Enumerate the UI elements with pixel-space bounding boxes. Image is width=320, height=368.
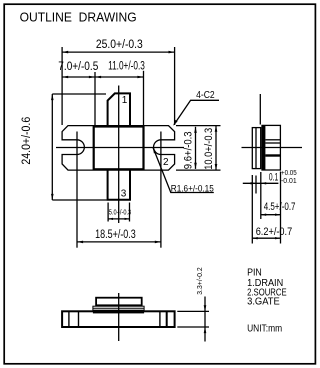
- bar inner vertical left 1: [68, 311, 70, 327]
- dimension 4.5+/-0.7: [261, 172, 281, 244]
- svg-text:+0.05: +0.05: [281, 170, 297, 177]
- svg-text:3: 3: [121, 188, 127, 199]
- cap: [96, 298, 142, 306]
- side view thick inner band: [265, 154, 280, 156]
- R1.6+/-0.15 slot radius callout: [153, 147, 214, 192]
- cap band divider: [93, 307, 144, 309]
- dimension 25.0+/-0.3: [62, 47, 175, 125]
- flange outline with slots and chamfers: [62, 126, 175, 171]
- dimension 0.1 +0.05/-0.01: [243, 172, 279, 219]
- left slot center line: [76, 132, 78, 248]
- svg-text:4-C2: 4-C2: [196, 89, 215, 101]
- svg-text:3.GATE: 3.GATE: [247, 297, 280, 308]
- dimension 3.3+/-0.2: [177, 297, 209, 342]
- dimension 10.0+/-0.3 (right, rotated): [215, 126, 217, 171]
- dimension 18.5+/-0.3 (bottom): [77, 241, 161, 243]
- svg-text:5.0+/-0.3: 5.0+/-0.3: [109, 209, 131, 216]
- side view inner line 1: [265, 139, 280, 141]
- dimension 7.0+/-0.5 and 11.0+/-0.3: [62, 71, 143, 126]
- ceramic body: [94, 127, 144, 170]
- dimension 6.2+/-0.7: [252, 175, 280, 244]
- svg-text:UNIT:mm: UNIT:mm: [247, 323, 282, 334]
- side view body rect: [262, 125, 280, 170]
- svg-text:1: 1: [122, 95, 128, 106]
- svg-text:18.5+/-0.3: 18.5+/-0.3: [95, 229, 136, 241]
- right slot center line: [160, 132, 162, 248]
- horizontal center line front view: [56, 147, 184, 149]
- svg-text:2: 2: [163, 157, 169, 168]
- lead pin 1 (top): [108, 93, 130, 126]
- vertical center line front view: [118, 86, 120, 224]
- side view lead divider: [255, 128, 257, 169]
- side view lead plane rect: [252, 128, 260, 169]
- svg-text:9.6+/-0.3: 9.6+/-0.3: [183, 131, 195, 169]
- svg-text:25.0+/-0.3: 25.0+/-0.3: [96, 39, 143, 51]
- svg-text:6.2+/-0.7: 6.2+/-0.7: [256, 226, 293, 238]
- svg-text:3.3+/-0.2: 3.3+/-0.2: [195, 267, 204, 295]
- svg-text:R1.6+/-0.15: R1.6+/-0.15: [171, 183, 214, 194]
- svg-text:7.0+/-0.5: 7.0+/-0.5: [58, 61, 98, 73]
- svg-text:0.1: 0.1: [269, 172, 278, 184]
- flange bar: [62, 311, 175, 327]
- cap band 1: [93, 306, 144, 310]
- cap black band: [93, 311, 144, 314]
- svg-text:11.0+/-0.3: 11.0+/-0.3: [108, 61, 145, 73]
- side view vertical center stub: [259, 94, 261, 125]
- dimension 9.6+/-0.3 (right, rotated): [176, 126, 221, 171]
- bottom view center line: [118, 293, 120, 341]
- svg-text:10.0+/-0.3: 10.0+/-0.3: [203, 128, 215, 170]
- bar inner vertical right 1: [159, 311, 161, 327]
- bar inner vertical right 2: [166, 311, 168, 327]
- dimension 24.0+/-0.6 (left): [52, 94, 107, 200]
- svg-text:24.0+/-0.6: 24.0+/-0.6: [21, 117, 33, 165]
- bar inner vertical left 2: [78, 311, 80, 327]
- dimension 5.0+/-0.3 (bottom lead): [108, 203, 129, 222]
- side view inner line 2: [265, 142, 280, 144]
- side view horizontal center line: [242, 147, 303, 149]
- side view flange thick band: [262, 125, 266, 170]
- svg-text:-0.01: -0.01: [281, 178, 297, 185]
- svg-text:4.5+/-0.7: 4.5+/-0.7: [264, 201, 296, 213]
- lead pin 3 (bottom): [108, 169, 130, 200]
- svg-text:OUTLINE DRAWING: OUTLINE DRAWING: [20, 9, 137, 24]
